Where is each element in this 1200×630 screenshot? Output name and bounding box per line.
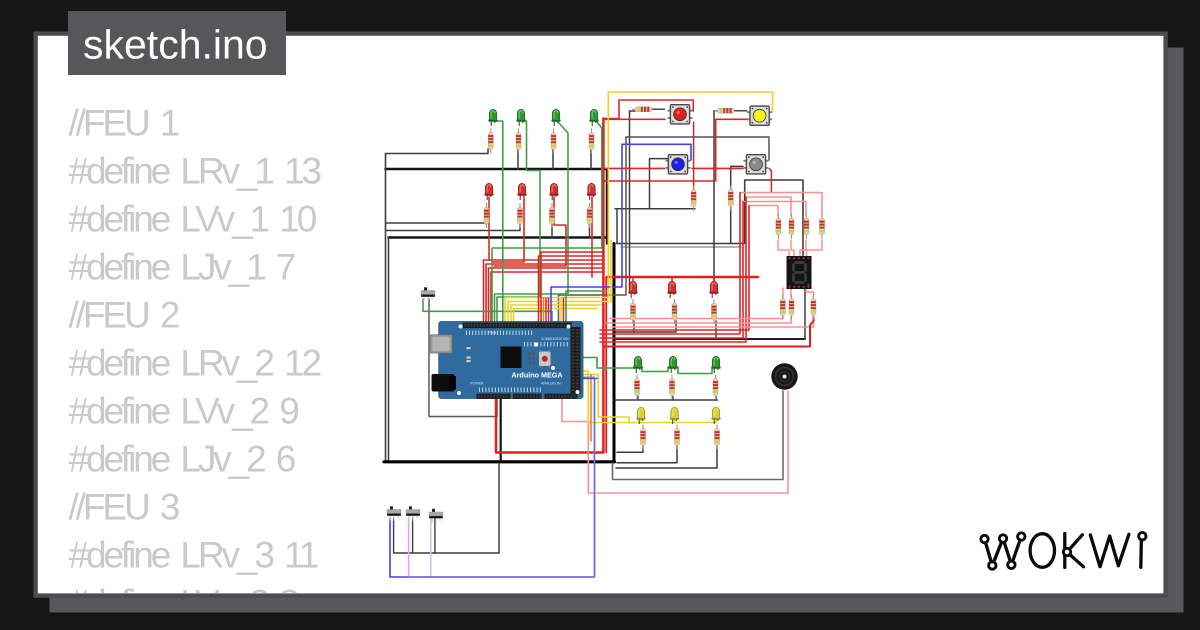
wire sw2 gnd stub [412,518,414,553]
wire switches gnd vertical [498,463,500,553]
wire 7seg top pin2 [791,240,794,257]
wire gnd red-row1 b [386,224,520,231]
slide switch SW5 [387,506,401,520]
wire yellow-row gnd b [617,446,677,463]
wire red led4 down [591,197,593,277]
svg-text://FEU 1: //FEU 1 [69,103,179,144]
wire 7seg top pin4 [807,240,823,257]
LED red D2 [517,183,526,200]
wire blue-btn gnd [650,159,669,209]
resistor R8 [587,203,592,228]
wire yellow nest3 [511,305,601,321]
wire green switch [423,299,552,321]
wire gnd g2 [517,149,519,169]
resistor R22 [641,425,646,450]
wire gnd g4 [590,149,592,169]
wire green-row2 stub2 [672,397,674,401]
wire 5V to red button [603,100,693,119]
wire resistor RH1 left drop [630,111,636,290]
wire green-row2 stub1 [637,397,639,401]
wire yellow stub1 [640,419,642,423]
wire pink run c [612,317,814,327]
LED green H1 [633,356,642,373]
wire red led1 down [488,197,490,260]
wire red btn row [604,118,665,120]
svg-text:Arduino MEGA: Arduino MEGA [511,371,562,380]
slide switch SW6 [406,506,420,520]
wire green row2 link1 [642,367,668,372]
resistor RH2 [714,108,747,113]
buzzer BZ1 [771,363,797,389]
LED green G2 [516,109,525,126]
wire green led1 [496,121,503,321]
resistor R20 [670,375,675,400]
LED red E1 [628,281,637,298]
wire pink sw2 [408,518,410,577]
wire red mid [604,317,814,347]
LED yellow Y3 [711,407,720,424]
wire yellow vertical extra [610,240,612,302]
wire yellow row feed [578,371,716,423]
wire red feed stub2 [671,277,673,281]
pushbutton SW-blue [666,155,691,174]
svg-text:#define LRv_2 12: #define LRv_2 12 [69,343,321,384]
resistor RB2 [728,186,733,211]
wire 7seg bot pin2 [790,288,792,297]
svg-text:COMMUNICATION: COMMUNICATION [541,337,569,341]
wire gnd bus top [386,169,608,244]
wire nest red 2 [486,264,604,321]
wire nest red 4 [491,272,604,321]
wire yellow top loop [505,92,773,321]
pushbutton SW-yellow [747,106,772,125]
svg-text://FEU 3: //FEU 3 [69,487,179,528]
resistor R9 [631,299,636,324]
resistor R14 [804,214,809,239]
resistor R6 [518,203,523,228]
svg-text://FEU 2: //FEU 2 [69,295,179,336]
resistor R7 [550,203,555,228]
LED yellow Y2 [670,407,679,424]
wire blue sw1 [390,518,409,577]
wire green-row2 gnd [616,399,718,401]
svg-text:sketch.ino: sketch.ino [83,22,268,68]
wire red feed stub1 [632,277,634,281]
wire nest red 5 [539,256,605,321]
svg-text:#define LJv_1 7: #define LJv_1 7 [69,247,295,288]
wire gnd red-row1 c [389,236,608,239]
wire 7seg right pin drop [804,288,806,339]
slide switch SW4 [421,287,435,301]
wire red yellow-btn drop [604,119,750,181]
wire pin fringe 4 [560,298,562,321]
wire yellow nest4 [514,309,598,322]
svg-text:#define LVv_1 10: #define LVv_1 10 [69,199,317,240]
LED green G3 [551,109,560,126]
wire pink run a [610,317,783,319]
wire yellow nest2 [508,302,611,322]
wire switches gnd horizontal [394,552,499,554]
wire red led2 down [492,197,524,262]
wire 7seg top pin3 [800,240,806,257]
wire green led4 [492,122,602,321]
resistor R15 [820,214,825,239]
svg-text:#define LRv_3 11: #define LRv_3 11 [69,535,318,576]
wire pink run b [607,317,791,323]
LED red E3 [709,281,718,298]
wire gray-btn loop top [626,137,769,160]
wire 5V thick loop [496,119,603,453]
resistor RH1 [632,107,665,112]
wire pin fringe 1 [543,298,545,321]
wire gnd bottom thick [384,460,615,463]
wire sw1 gnd stub [393,518,395,553]
resistor R19 [635,375,640,400]
wire lavender sw3 [430,518,432,577]
wire red gray-btn stub [769,169,771,193]
wire orange drop [590,375,592,442]
resistor R10 [672,299,677,324]
resistor R18 [811,295,816,320]
wire resistor RH2 left drop [714,111,717,288]
resistor R21 [713,375,718,400]
wire pink loop R13 [740,193,822,217]
LED green H3 [711,356,720,373]
wire gnd r4 stub [589,224,591,238]
wire nest red 1 [484,260,605,321]
wire green led2 [497,121,540,321]
resistor R13 [789,214,794,239]
resistor R23 [675,425,680,450]
LED red D1 [484,183,493,200]
wire gray-btn loop [559,137,627,321]
wire green-row2 stub3 [715,397,717,401]
wire red-row2 stub3 [715,321,717,339]
wire pink loop R14 [743,202,806,217]
LED green H2 [668,356,677,373]
wire gnd green-row1 a [386,149,488,154]
pushbutton SW-red [668,105,693,124]
wire yellow-row gnd a [617,446,643,452]
wire blue button loop [551,144,691,321]
svg-text:ANALOG IN: ANALOG IN [541,382,561,386]
wire yellow stub2 [674,419,676,423]
resistor R17 [789,295,794,320]
wire gray-btn gnd [731,166,743,189]
resistor R1 [488,129,493,154]
resistor R4 [589,129,594,154]
sketch.ino tab [68,11,286,75]
svg-text:#define LRv_1 13: #define LRv_1 13 [69,151,321,192]
wire nest green extra [566,291,604,321]
LED red E2 [667,281,676,298]
resistor R11 [712,299,717,324]
wire gray parallel [621,246,741,248]
wire red vert d [600,206,749,331]
svg-text:#define LVv_2 9: #define LVv_2 9 [69,391,299,432]
wire red LED row2 feed [607,276,758,278]
wire 7seg gnd thick [616,338,805,340]
wire blue stub right [583,378,597,380]
wire red vert a [600,193,740,335]
wire buzzer gnd lead [613,391,784,480]
wire pin fringe 2 [545,298,547,321]
wire 7seg top pin1 [778,240,789,257]
7-segment display U2 [787,256,812,289]
wire red-row2 gnd [616,331,676,333]
svg-text:PWM: PWM [488,331,496,335]
wire red blue-btn [604,167,665,169]
wire red-row2 stub2 [675,321,677,332]
wire 7seg black loop [617,180,804,257]
wire pin fringe 5 [563,298,565,321]
svg-text:POWER: POWER [470,382,484,386]
wire red vert b [600,202,743,339]
svg-text:#define LJv_2 6: #define LJv_2 6 [69,439,295,480]
LED green G4 [589,109,598,126]
wire yellow row feed2 [578,375,629,423]
LED green G1 [488,109,497,126]
wire slide-switch SW4 signal [429,299,497,417]
wire nest red 6 [541,252,604,321]
wire purple run [409,378,595,578]
LED red D3 [549,183,558,200]
resistor R24 [715,425,720,450]
wire 7seg bot pin3 [806,288,814,297]
Wokwi logo [985,534,1142,568]
wire gnd 208 drop [616,209,618,244]
wire 5V inner [605,277,607,453]
wire pink loop R16 [749,206,778,217]
wire gnd red-row1 a [386,223,486,224]
wire pink loop R15 [746,197,791,216]
Arduino MEGA board U1 [431,322,584,399]
slide switch SW7 [429,509,443,523]
wire pink bottom loop [562,391,788,493]
wire red red-btn resistor [693,122,695,189]
resistor R5 [484,203,489,228]
wire red feed stub3 [713,277,715,281]
wire left rail inner [388,238,390,461]
wire green row2 feed [578,358,634,369]
wire left rail outer [385,154,387,462]
wire red vert c [600,197,746,342]
wire red-row2 stub1 [633,321,635,332]
wire gnd g3 [552,149,554,169]
pushbutton SW-gray [744,155,769,174]
resistor RB1 [691,186,696,211]
LED red D4 [587,183,596,200]
resistor R2 [516,129,521,154]
wire nest red 3 [489,268,605,321]
wire gnd row 208 [615,208,695,210]
wire yellow-row gnd c [616,446,717,468]
wire resistor RB2 bottom [730,207,732,244]
wire sw3 gnd stub [434,518,436,553]
wire arduino gnd down [500,398,502,461]
wire green led3 [495,122,569,321]
wire gnd r3 stub [551,224,553,238]
wire pin fringe 3 [548,298,550,321]
wire green row2 link2 [678,367,712,374]
wire gnd bus vertical [613,244,616,462]
resistor R16 [780,295,785,320]
LED yellow Y1 [636,407,645,424]
resistor R3 [551,129,556,154]
wire red led3 down [494,197,566,266]
resistor R12 [776,214,781,239]
wire 7seg bot pin1 [782,288,784,297]
wire red btn row2 [692,167,743,169]
